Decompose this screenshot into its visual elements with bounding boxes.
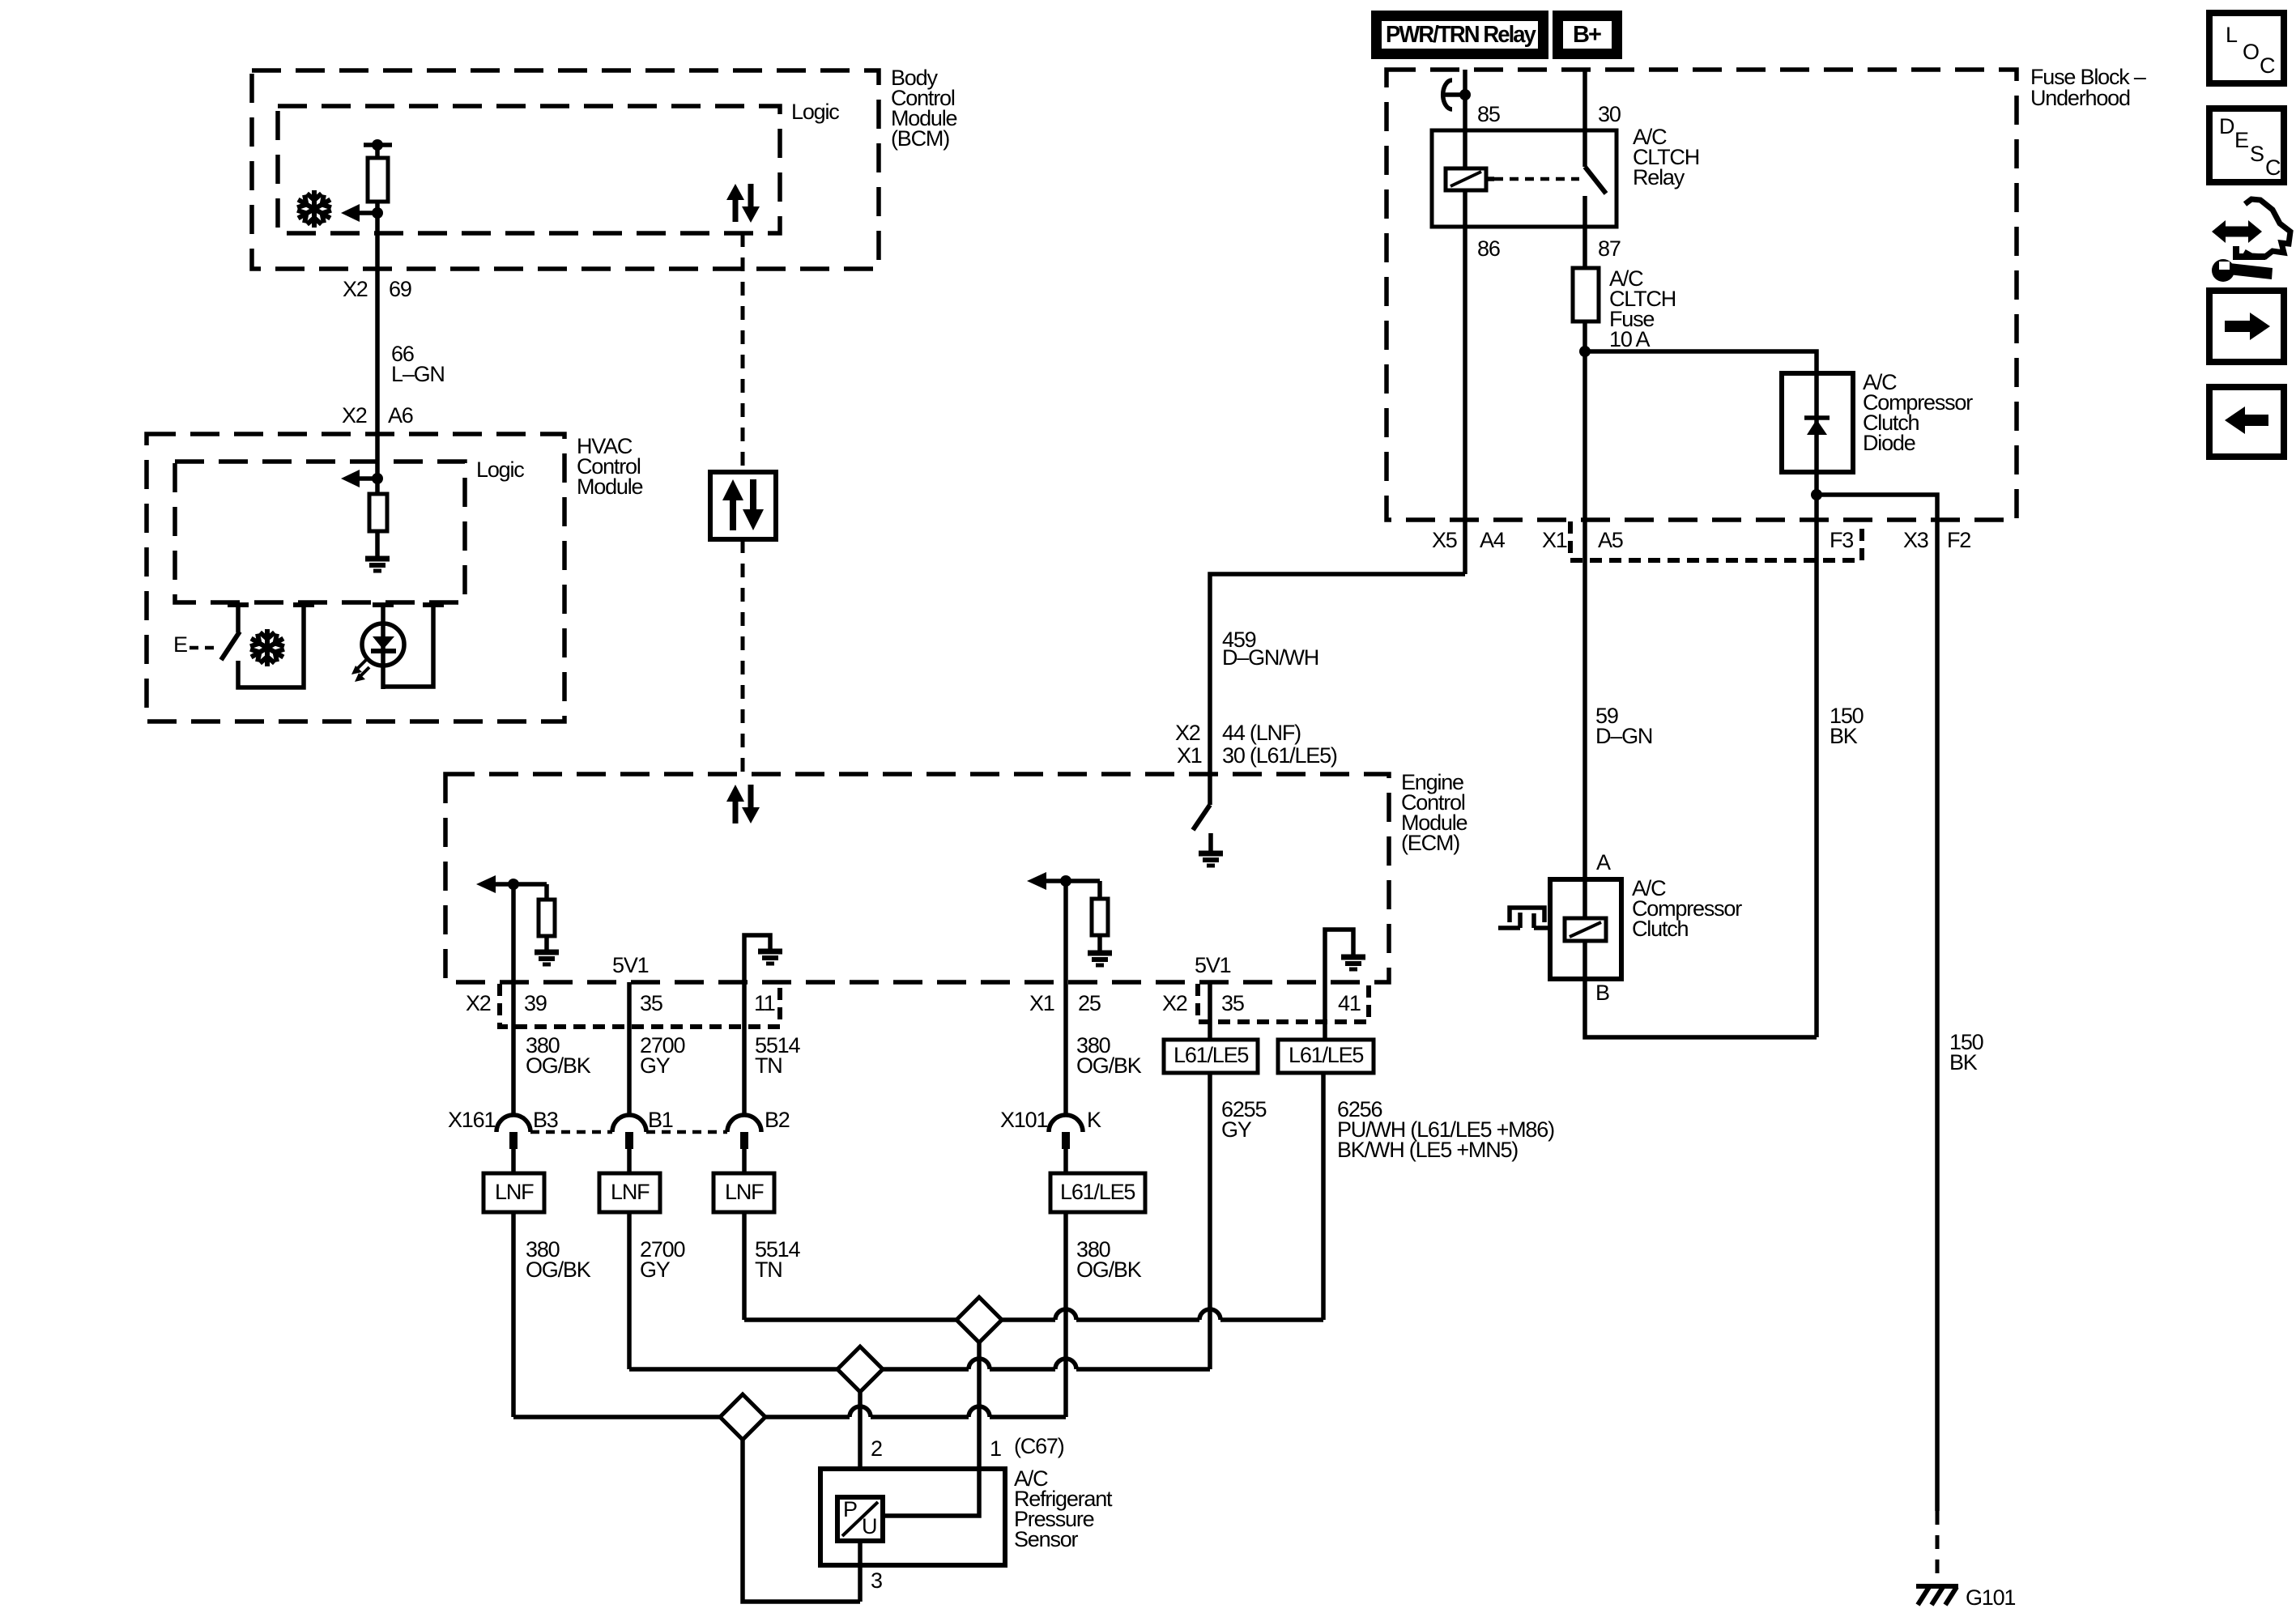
- snowflake icon (HVAC switch): [248, 629, 288, 666]
- svg-text:87: 87: [1598, 236, 1621, 261]
- svg-text:Underhood: Underhood: [2030, 86, 2130, 110]
- svg-text:Clutch: Clutch: [1632, 917, 1689, 941]
- variant box L61/LE5 (K): [1050, 1173, 1145, 1212]
- wire BCM output down to HVAC: [375, 202, 380, 434]
- svg-text:25: 25: [1078, 991, 1101, 1015]
- svg-text:B+: B+: [1573, 22, 1601, 48]
- svg-text:B3: B3: [533, 1108, 558, 1132]
- svg-text:G101: G101: [1966, 1585, 2015, 1610]
- wire 86 down to X5/A4: [1463, 227, 1467, 574]
- wire branch to F2: [1817, 495, 1937, 520]
- up/down arrows (BCM serial logic): [726, 184, 760, 223]
- power label box B+: [1553, 11, 1622, 59]
- wire to resistor R4: [1097, 881, 1102, 899]
- svg-text:Relay: Relay: [1633, 165, 1685, 189]
- label HVAC Control Module: [577, 434, 643, 499]
- svg-text:39: 39: [524, 991, 547, 1015]
- svg-text:X2: X2: [1175, 721, 1200, 745]
- node dot below diode: [1811, 489, 1822, 500]
- arrowhead left (BCM): [341, 204, 360, 222]
- node dot top of R1: [372, 139, 383, 151]
- svg-text:BK/WH (LE5 +MN5): BK/WH (LE5 +MN5): [1337, 1138, 1518, 1162]
- lower wire labels: [526, 1237, 1142, 1282]
- node dot (X1-25): [1060, 875, 1071, 887]
- ground (pin 41): [1341, 957, 1365, 969]
- svg-text:GY: GY: [640, 1257, 671, 1282]
- wire labels 380 OG/BK 2700 GY 5514 TN 380 OG/BK: [526, 1033, 1142, 1078]
- relay coil: [1446, 168, 1494, 190]
- variant box LNF (B2): [714, 1173, 774, 1212]
- svg-text:D: D: [2219, 114, 2234, 138]
- svg-text:BK: BK: [1830, 724, 1858, 748]
- svg-text:E: E: [173, 632, 187, 657]
- node dot below fuse: [1579, 346, 1591, 357]
- svg-text:3: 3: [871, 1568, 882, 1593]
- wire label 150 BK (upper): [1830, 704, 1864, 748]
- svg-text:X1: X1: [1177, 743, 1202, 768]
- svg-text:LNF: LNF: [495, 1180, 534, 1204]
- diode box: [1782, 373, 1853, 472]
- logic box HVAC: [175, 462, 465, 602]
- wire 87 to fuse: [1582, 227, 1587, 268]
- mechanical linkage symbol: [1498, 908, 1550, 928]
- wire pin 35 right (5V1) down: [1208, 982, 1212, 1040]
- svg-text:A5: A5: [1598, 528, 1623, 552]
- connector X161 dashed line: [530, 1130, 727, 1134]
- module box HVAC: [147, 434, 564, 721]
- svg-text:35: 35: [640, 991, 662, 1015]
- pin label X2 A6 (HVAC): [342, 403, 413, 428]
- svg-text:D–GN/WH: D–GN/WH: [1222, 645, 1318, 670]
- wire B+ to 30: [1582, 70, 1587, 130]
- svg-text:X161: X161: [448, 1108, 495, 1132]
- resistor R4 (ECM pull-up): [1092, 899, 1108, 935]
- label A/C Compressor Clutch Diode: [1863, 370, 1973, 455]
- wire pin 39 down: [511, 884, 516, 1117]
- ground (pin 11): [758, 951, 782, 964]
- svg-text:A4: A4: [1480, 528, 1506, 552]
- wire A5 down to clutch A: [1582, 520, 1587, 879]
- wire dashed serial data (BCM to box): [741, 233, 745, 472]
- wire branch to diode: [1585, 351, 1817, 373]
- wire label 150 BK (lower): [1949, 1030, 1983, 1074]
- up/down arrows (ECM serial logic): [726, 785, 760, 823]
- bus2 (2700 GY to 6255) with hops: [629, 1359, 1210, 1369]
- svg-text:(BCM): (BCM): [891, 126, 949, 151]
- svg-text:K: K: [1087, 1108, 1101, 1132]
- wire internal T-bar top of R1: [364, 143, 392, 147]
- wire R4 to ground: [1097, 935, 1102, 952]
- wire R3 to ground: [544, 936, 549, 951]
- wire arrow lead (HVAC logic in): [358, 476, 377, 481]
- svg-text:5V1: 5V1: [612, 953, 649, 977]
- wire HVAC input: [375, 434, 380, 494]
- ground (R4): [1088, 953, 1112, 965]
- LED light arrows: [351, 660, 369, 682]
- svg-text:E: E: [2234, 128, 2248, 152]
- svg-text:L61/LE5: L61/LE5: [1289, 1043, 1363, 1067]
- svg-text:X1: X1: [1542, 528, 1567, 552]
- svg-text:X101: X101: [1000, 1108, 1047, 1132]
- P/U transducer box: [837, 1497, 883, 1541]
- connector dashed box X2 39/35/11: [500, 984, 780, 1027]
- splice diamond on bus1: [956, 1297, 1002, 1343]
- wire 85 into coil: [1463, 130, 1467, 168]
- label A/C Compressor Clutch: [1632, 876, 1742, 941]
- svg-text:X1: X1: [1029, 991, 1054, 1015]
- wire diode down to dot: [1814, 472, 1819, 520]
- resistor R2 (HVAC): [369, 494, 387, 531]
- wire F2 down to G101: [1935, 520, 1940, 1511]
- LED triangle: [373, 636, 394, 649]
- wire 459 routing to ECM: [1210, 574, 1465, 774]
- pin labels 2 1 (C67): [871, 1434, 1064, 1461]
- wire label 66 L-GN: [391, 342, 445, 386]
- svg-text:30 (L61/LE5): 30 (L61/LE5): [1222, 743, 1337, 768]
- wire label 6255 GY: [1221, 1097, 1266, 1142]
- svg-text:LNF: LNF: [725, 1180, 764, 1204]
- wire label 59 D-GN: [1595, 704, 1652, 748]
- svg-text:69: 69: [389, 277, 411, 301]
- variant box L61/LE5 (pin35): [1164, 1040, 1258, 1073]
- label A/C Refrigerant Pressure Sensor: [1014, 1466, 1113, 1551]
- clutch box: [1550, 879, 1621, 979]
- svg-text:35: 35: [1221, 991, 1244, 1015]
- label Body Control Module (BCM): [891, 66, 957, 151]
- svg-text:L: L: [2226, 23, 2238, 47]
- svg-text:OG/BK: OG/BK: [526, 1257, 591, 1282]
- wire coil feed 85: [1463, 70, 1467, 130]
- connector X161 arcs and pins: [496, 1115, 761, 1149]
- svg-text:1: 1: [990, 1436, 1001, 1461]
- svg-text:A: A: [1596, 850, 1611, 874]
- pin label X2 69 (BCM): [343, 277, 411, 301]
- wire pin 41 down: [1323, 982, 1327, 1040]
- svg-text:LNF: LNF: [611, 1180, 650, 1204]
- svg-text:O: O: [2243, 40, 2259, 64]
- node dot (X2-39): [508, 879, 519, 890]
- variant box L61/LE5 (pin41): [1278, 1040, 1374, 1073]
- connector dashed box X2 35/41: [1198, 984, 1369, 1022]
- dashed relay link: [1494, 177, 1579, 181]
- svg-text:86: 86: [1477, 236, 1500, 261]
- svg-text:TN: TN: [755, 1053, 782, 1078]
- svg-text:C: C: [2260, 53, 2275, 78]
- svg-text:C: C: [2265, 155, 2281, 180]
- pin number labels row: [466, 991, 1361, 1015]
- LED circle: [362, 623, 404, 666]
- node dot HVAC input: [372, 473, 383, 484]
- switch lower contact leg: [238, 602, 304, 687]
- svg-text:GY: GY: [640, 1053, 671, 1078]
- ground (R3): [535, 952, 559, 964]
- svg-text:85: 85: [1477, 102, 1500, 126]
- wire dashed serial data (box to ECM): [741, 539, 745, 774]
- up/down arrows (gateway box): [722, 479, 764, 530]
- bus3 (380 OG/BK) with hops: [513, 1406, 1066, 1417]
- svg-text:P: P: [843, 1497, 857, 1521]
- logic box BCM: [278, 106, 780, 233]
- wire pin1 inside sensor: [883, 1469, 979, 1516]
- label Fuse Block - Underhood: [2030, 65, 2146, 110]
- wire pin 35 (5V1) down: [627, 982, 632, 1117]
- svg-text:10 A: 10 A: [1609, 327, 1650, 351]
- wire B2 drop to bus1: [742, 1212, 747, 1320]
- power label box PWR/TRN Relay: [1371, 11, 1548, 59]
- snowflake icon (BCM): [295, 190, 334, 228]
- resistor R3 (ECM pull-up): [539, 900, 555, 936]
- wire R2 bottom lead: [375, 531, 380, 556]
- icon box arrow left: [2209, 387, 2284, 457]
- ground (HVAC logic): [365, 559, 390, 571]
- svg-text:TN: TN: [755, 1257, 782, 1282]
- pin labels X5 A4 X1 A5 F3 X3 F2: [1432, 528, 1970, 552]
- ground G101 (chassis): [1916, 1586, 1958, 1605]
- wire K drop to bus3: [1063, 1212, 1068, 1417]
- svg-text:U: U: [862, 1514, 876, 1538]
- svg-text:(ECM): (ECM): [1401, 831, 1459, 855]
- wire pin3 out of sensor: [858, 1541, 863, 1602]
- switch terminal tabs: [228, 602, 444, 607]
- svg-text:41: 41: [1338, 991, 1361, 1015]
- wire dashed to G101: [1936, 1511, 1940, 1586]
- svg-text:Module: Module: [577, 474, 643, 499]
- pin labels X2 44 (LNF) / X1 30 (L61/LE5): [1175, 721, 1337, 768]
- wires connector to variant boxes: [513, 1149, 1066, 1173]
- relay switch blade: [1585, 167, 1606, 194]
- icon wiring-repair (arrow + wrench): [2212, 199, 2290, 282]
- module box BCM: [252, 70, 879, 269]
- svg-text:5V1: 5V1: [1195, 953, 1231, 977]
- arrowhead left (ECM X1-25): [1027, 872, 1046, 890]
- wire F3 down: [1814, 520, 1819, 1037]
- label Engine Control Module (ECM): [1401, 770, 1467, 855]
- wire arrow to dot (X2-39): [495, 882, 547, 887]
- switch A/C request: left leg: [236, 602, 241, 632]
- LED bottom U loop: [383, 602, 433, 687]
- svg-text:B: B: [1595, 981, 1609, 1005]
- svg-text:S: S: [2250, 142, 2264, 166]
- bus1 (5514 TN to 6256) with hops: [744, 1309, 1323, 1320]
- svg-text:2: 2: [871, 1436, 882, 1461]
- svg-text:PWR/TRN Relay: PWR/TRN Relay: [1386, 22, 1536, 48]
- svg-text:B1: B1: [648, 1108, 673, 1132]
- icon box DESC: [2209, 109, 2284, 182]
- svg-text:L61/LE5: L61/LE5: [1174, 1043, 1248, 1067]
- svg-text:X2: X2: [1162, 991, 1187, 1015]
- wire 6255 drop to bus2: [1208, 1073, 1212, 1369]
- dashed link E to switch: [190, 646, 215, 650]
- svg-text:F3: F3: [1830, 528, 1853, 552]
- wire 6256 drop to bus1: [1321, 1073, 1326, 1320]
- svg-text:X2: X2: [466, 991, 491, 1015]
- svg-text:L–GN: L–GN: [391, 362, 445, 386]
- continuation hook symbol at 85: [1442, 80, 1465, 109]
- variant box LNF (B1): [599, 1173, 660, 1212]
- ground hook (pin 11): [744, 935, 770, 982]
- wire pin 25 down: [1063, 881, 1068, 1117]
- ECM input switch (459): [1193, 774, 1211, 853]
- svg-text:X5: X5: [1432, 528, 1457, 552]
- wire label 6256 PU/WH BK/WH: [1337, 1097, 1554, 1162]
- switch blade: [221, 632, 240, 660]
- fuse A/C CLTCH 10A: [1573, 268, 1599, 321]
- sensor box: [820, 1469, 1005, 1565]
- svg-text:X2: X2: [342, 403, 367, 428]
- svg-text:D–GN: D–GN: [1595, 724, 1652, 748]
- wire label 459 D-GN/WH: [1222, 628, 1318, 670]
- svg-text:30: 30: [1598, 102, 1621, 126]
- svg-text:44 (LNF): 44 (LNF): [1222, 721, 1301, 745]
- arrowhead left (HVAC): [341, 470, 360, 487]
- node junction dot BCM output: [372, 207, 383, 219]
- serial data gateway box: [710, 472, 776, 539]
- svg-text:A6: A6: [388, 403, 413, 428]
- svg-text:11: 11: [754, 991, 775, 1015]
- svg-text:OG/BK: OG/BK: [526, 1053, 591, 1078]
- clutch coil: [1565, 918, 1606, 941]
- label A/C CLTCH Fuse 10 A: [1609, 266, 1676, 351]
- resistor R1 (BCM): [368, 158, 388, 202]
- wire arrow to dot (X1-25): [1046, 879, 1100, 883]
- svg-text:OG/BK: OG/BK: [1076, 1053, 1142, 1078]
- svg-text:F2: F2: [1947, 528, 1970, 552]
- wire through diode box: [1814, 373, 1819, 472]
- splice diamond on bus3: [720, 1394, 765, 1440]
- svg-text:(C67): (C67): [1014, 1434, 1064, 1458]
- svg-text:Diode: Diode: [1863, 431, 1915, 455]
- svg-text:L61/LE5: L61/LE5: [1060, 1180, 1135, 1204]
- svg-text:X3: X3: [1903, 528, 1928, 552]
- svg-text:BK: BK: [1949, 1050, 1978, 1074]
- splice diamond on bus2: [837, 1347, 883, 1392]
- wire switch to 87: [1582, 196, 1587, 227]
- module box ECM: [445, 774, 1389, 982]
- svg-text:GY: GY: [1221, 1117, 1252, 1142]
- connector labels X161 B3 B1 B2 X101 K: [448, 1108, 1101, 1132]
- wire fuse out: [1582, 321, 1587, 520]
- connector X101 arc and pin: [1049, 1115, 1083, 1149]
- wire pin 11 down: [742, 982, 747, 1117]
- wire diamond1 to sensor pin1: [977, 1343, 982, 1469]
- wire clutch B return: [1585, 979, 1817, 1037]
- relay box A/C CLTCH Relay: [1432, 130, 1617, 227]
- wire coil to 86: [1463, 190, 1467, 227]
- ground hook (pin 41): [1325, 930, 1353, 982]
- arrowhead left (ECM X2-39): [476, 875, 496, 893]
- svg-text:Logic: Logic: [791, 100, 839, 124]
- wire B1 drop to bus2: [627, 1212, 632, 1369]
- LED indicator: lead through: [381, 602, 386, 689]
- fuse block module box: [1387, 70, 2017, 520]
- wire B3 drop to bus3: [511, 1212, 516, 1417]
- icon box arrow right: [2209, 291, 2284, 362]
- wire through clutch box: [1582, 879, 1587, 979]
- label A/C CLTCH Relay: [1633, 125, 1699, 189]
- diode symbol: [1804, 418, 1830, 435]
- wire 30 into switch: [1582, 130, 1587, 167]
- variant box LNF (B3): [483, 1173, 544, 1212]
- connector dashed box A5..F3: [1570, 521, 1862, 560]
- svg-text:X2: X2: [343, 277, 368, 301]
- icon box LOC: [2209, 13, 2284, 83]
- LED cathode bar: [371, 649, 396, 653]
- wire to resistor R3: [544, 884, 549, 900]
- ground (ECM switch): [1199, 853, 1223, 866]
- wire R1 top lead: [375, 145, 380, 158]
- wire diamond3 to sensor return: [743, 1440, 860, 1602]
- wire diamond2 to sensor pin2: [858, 1392, 863, 1497]
- svg-text:B2: B2: [765, 1108, 790, 1132]
- svg-text:OG/BK: OG/BK: [1076, 1257, 1142, 1282]
- svg-text:Sensor: Sensor: [1014, 1527, 1079, 1551]
- wire arrow lead (A/C request out): [359, 211, 377, 215]
- svg-text:Logic: Logic: [476, 457, 524, 482]
- node dot 85 feed: [1459, 89, 1471, 100]
